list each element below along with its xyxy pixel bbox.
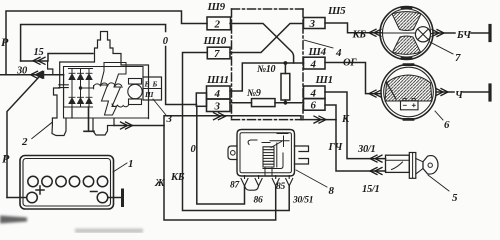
wire Zh from output bus down to relay 85 [164, 126, 276, 221]
svg-text:15: 15 [34, 47, 44, 58]
capacitor [59, 75, 69, 107]
generator inner rectifier frame [64, 67, 149, 119]
svg-text:3: 3 [166, 113, 173, 125]
svg-text:Ш9: Ш9 [207, 1, 226, 13]
node line to Sh11 pin4 [230, 63, 294, 91]
lamp 7 outer circle [380, 7, 433, 60]
wire 15 segment to generator [21, 54, 93, 62]
wire Sh11 pin3 through fuse No9 to Sh1 pin6 [230, 102, 252, 104]
gauge 6 rim marks [404, 65, 413, 120]
svg-text:30/51: 30/51 [292, 196, 313, 206]
svg-text:0: 0 [191, 144, 197, 155]
chevron on wire 15 [33, 57, 45, 64]
junction dot stator tap [79, 86, 82, 89]
lamp 7 top hatched sector [392, 12, 421, 31]
svg-text:Ш4: Ш4 [308, 46, 327, 58]
connector box Sh1 pin 4 [304, 86, 326, 99]
svg-text:8: 8 [329, 185, 335, 197]
scan artifact bottom smudge [75, 229, 143, 234]
fuse No10 vertical [284, 63, 286, 74]
wire K: Sh1 pin4 down to switch 30/1 [325, 92, 386, 159]
switch cone [416, 159, 423, 175]
wire 30 from P line to generator rectifier [0, 74, 64, 76]
svg-text:2: 2 [21, 136, 28, 148]
gauge 6 needle [386, 82, 396, 100]
crossing wire A: Sh9 pin2 to Sh4 pin4 [230, 24, 304, 64]
gauge 6 outer circle [381, 65, 436, 120]
minus sign [91, 191, 98, 193]
battery cells [28, 176, 38, 186]
svg-text:ГЧ: ГЧ [328, 142, 344, 153]
regulator box on generator [143, 77, 162, 100]
svg-text:КБ: КБ [352, 30, 367, 41]
svg-text:№9: №9 [246, 88, 261, 99]
svg-text:5: 5 [452, 192, 458, 204]
relay left ear [228, 146, 237, 160]
svg-text:87: 87 [230, 181, 240, 191]
battery minus to ground [108, 197, 121, 199]
strap joining Sh11 pins 4 and 3 [196, 93, 206, 106]
svg-text:0: 0 [163, 36, 169, 47]
stator tap wire [81, 86, 94, 89]
gauge 6 right wire to terminal [436, 91, 488, 93]
svg-text:Ш: Ш [144, 90, 154, 99]
connector box Sh4 pin 4 [304, 57, 326, 69]
svg-text:Ж: Ж [154, 178, 165, 189]
wire OG: Sh4 pin4 to gauge 6 [325, 63, 381, 94]
leader line 5 [428, 175, 449, 191]
svg-text:30/1: 30/1 [357, 144, 376, 155]
svg-text:Р: Р [1, 35, 9, 49]
arrowhead on wire 30 at generator [36, 72, 43, 78]
connector box Sh5 pin 3 [304, 18, 326, 29]
connector box Sh11 pin 3 [207, 99, 231, 112]
lamp 7 bulb with cross [415, 27, 430, 42]
brush and slip ring assembly [129, 79, 142, 85]
battery outline [20, 156, 114, 210]
stator winding scallops upper [93, 83, 122, 89]
svg-text:15/1: 15/1 [362, 184, 380, 195]
leader line 1 [113, 163, 127, 172]
generator outline [52, 32, 149, 136]
diode column wires [72, 69, 89, 108]
leader line 8 [296, 170, 327, 187]
relay body [237, 130, 295, 177]
connector box Sh10 pin 7 [207, 47, 230, 59]
wire P diagonal section down to battery [7, 78, 39, 198]
leader line 4 [304, 40, 333, 48]
terminal bar BCh [488, 26, 491, 41]
relay coil [263, 147, 274, 167]
svg-text:ОГ: ОГ [343, 58, 357, 69]
svg-text:Ш1: Ш1 [315, 74, 333, 86]
svg-text:Ш5: Ш5 [327, 5, 346, 17]
lamp 7 bottom hatched sector [393, 36, 421, 54]
svg-text:4: 4 [310, 59, 317, 71]
gauge 6 battery icon [401, 101, 419, 110]
relay right ear [295, 146, 309, 164]
svg-text:7: 7 [214, 48, 220, 60]
svg-text:6: 6 [444, 119, 450, 131]
leader line 7 [430, 42, 453, 54]
svg-text:КБ: КБ [170, 172, 185, 183]
lamp 7 rim marks [402, 8, 411, 59]
chevron on wire 30 [31, 71, 43, 78]
leader line 6 [435, 111, 443, 120]
switch key head [423, 156, 438, 174]
junction dot fuse 10 bottom [284, 101, 288, 105]
stator winding scallops lower [112, 104, 129, 107]
lamp 7 internal wire [381, 32, 415, 34]
chevrons on output bus [121, 122, 133, 129]
svg-text:85: 85 [276, 182, 285, 192]
terminal bar Ch [488, 85, 491, 100]
svg-text:4: 4 [310, 88, 317, 100]
wire P from battery plus up and over to connector Sh9 pin 2 [6, 11, 207, 75]
svg-text:4: 4 [214, 88, 221, 100]
svg-text:2: 2 [214, 19, 221, 31]
relay armature and leads [263, 143, 283, 176]
svg-text:Р: Р [2, 152, 10, 166]
jumper 87 to 86 [245, 187, 259, 191]
svg-text:В: В [144, 80, 150, 89]
wire GCh: Sh1 pin6 down to switch 15/1 [325, 105, 386, 171]
scan artifact left wedge [0, 216, 27, 224]
battery minus terminal [97, 192, 108, 203]
svg-text:К: К [341, 114, 350, 125]
svg-text:3: 3 [214, 101, 221, 113]
relay contact parts [248, 134, 289, 148]
svg-text:4: 4 [335, 47, 342, 59]
connector box Sh11 pin 4 [207, 86, 231, 99]
wire 15/0: regulator 15 terminal up over to vertical 0 drop into Sh11 strap [21, 25, 197, 105]
svg-text:7: 7 [455, 52, 461, 64]
rotor jagged shape [101, 63, 127, 116]
lamp 7 right wire to terminal [433, 32, 488, 34]
battery plus terminal [27, 192, 38, 203]
svg-text:86: 86 [254, 196, 263, 206]
crossing wire B: Sh10 pin7 to Sh5 pin3 [230, 24, 303, 53]
generator ground stubs [71, 107, 73, 118]
leader line 2 [32, 123, 52, 139]
svg-text:Б: Б [152, 80, 158, 89]
wire 0 from strap down to relay 87 [197, 106, 245, 204]
wire KB from Sh10 pin7 down to relay 30/51 [183, 53, 290, 211]
rectifier top bus [69, 68, 93, 70]
svg-text:Ш10: Ш10 [203, 35, 227, 47]
svg-text:Ш11: Ш11 [206, 74, 229, 86]
rectifier bottom bus [64, 106, 93, 108]
top row diodes [69, 73, 92, 103]
connector box Sh9 pin 2 [207, 17, 231, 30]
bottom row diodes [69, 98, 75, 104]
ignition switch 5 body [386, 155, 410, 172]
gauge 6 dial hatched [385, 75, 432, 101]
svg-text:30: 30 [16, 66, 28, 77]
svg-text:1: 1 [128, 158, 133, 170]
wire P to battery plus terminal [7, 197, 27, 199]
wire KB: Sh5 pin3 to lamp 7 [325, 23, 381, 33]
fuse No9 horizontal [252, 99, 276, 107]
switch flange [409, 153, 416, 179]
plus sign [36, 186, 44, 194]
svg-text:№10: №10 [256, 64, 276, 75]
leader line 3 [153, 99, 166, 115]
junction dot fuse 10 top [284, 61, 288, 65]
dash-dot connector panel boundary [232, 9, 304, 120]
regulator 15 terminal bracket [48, 61, 53, 75]
relay terminal stubs and arrows [241, 176, 248, 186]
generator output bus to right [114, 116, 336, 126]
connector box Sh1 pin 6 [304, 99, 326, 111]
svg-text:6: 6 [311, 100, 317, 112]
svg-text:БЧ: БЧ [456, 30, 472, 41]
svg-text:3: 3 [309, 18, 316, 30]
